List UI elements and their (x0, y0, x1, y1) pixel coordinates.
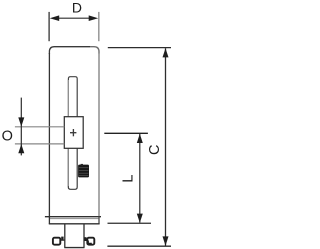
inner tube lower: left wall lighter overpaint (67, 148, 69, 186)
dimension D left extension line (48, 12, 50, 41)
plus mark (70, 132, 76, 134)
dimension D right arrowhead (89, 15, 99, 21)
dimension D line (53, 17, 95, 19)
cap top line with lips (45, 216, 101, 218)
right pin inner mark (88, 241, 92, 244)
lamp body outline: top edge with rounded corners (49, 47, 90, 54)
dimension L vertical line (139, 134, 141, 223)
left connector line (61, 239, 65, 241)
svg-text:C: C (147, 145, 163, 155)
svg-text:D: D (72, 0, 82, 15)
dimension C bottom arrowhead (163, 236, 169, 245)
inner tube upper: left wall lighter overpaint (67, 80, 69, 117)
inner tube upper: top (68, 77, 77, 117)
lamp body left wall (48, 53, 50, 217)
cap side walls (48, 217, 50, 224)
getter block (78, 164, 89, 178)
dimension O vertical line (20, 98, 22, 156)
dimension C vertical line (165, 48, 167, 245)
dimension C top extension line (108, 47, 171, 49)
svg-text:L: L (121, 175, 137, 183)
dimension O bottom reference line (15, 143, 64, 145)
light-centre tick line (104, 132, 148, 134)
dimension L bottom reference line (108, 222, 152, 224)
dimension C bottom extension line (107, 245, 171, 247)
dimension D right extension line (98, 12, 100, 41)
dimension C top arrowhead (163, 48, 169, 57)
lamp body right wall (98, 53, 100, 217)
right pin tab (84, 237, 86, 241)
dimension D left arrowhead (50, 15, 60, 21)
left pin tab (61, 237, 63, 241)
dimension O down arrowhead (18, 117, 24, 126)
dimension L bottom arrowhead (137, 214, 143, 223)
right pin (87, 238, 94, 245)
dimension O up arrowhead (18, 144, 24, 153)
inner tube lower walls (68, 148, 77, 189)
dimension L top arrowhead (137, 134, 143, 143)
electrode box with plus (64, 117, 83, 149)
stem (64, 224, 66, 248)
svg-text:O: O (2, 128, 13, 144)
left pin (53, 238, 60, 245)
cap inner gray line (50, 218, 99, 220)
dimension O top reference line (15, 126, 64, 128)
cap bottom line (49, 223, 100, 225)
